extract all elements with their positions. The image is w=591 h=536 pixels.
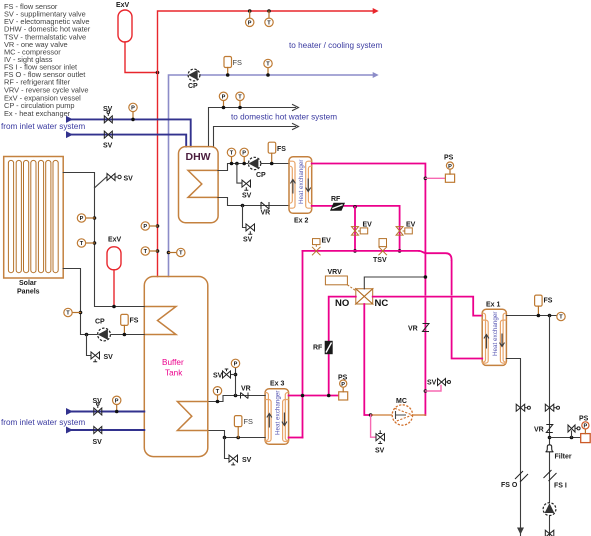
wire: SV drop below DHW line	[243, 206, 246, 228]
svg-text:P: P	[448, 164, 452, 170]
svg-text:Tank: Tank	[165, 369, 183, 378]
pump CP (heating circuit)	[188, 69, 200, 90]
refrigerant filter RF (Ex2 line)	[330, 196, 345, 211]
wire: Ex2 return (magenta bottom, RF line)	[312, 206, 400, 251]
node: SV branch	[234, 373, 238, 377]
valve (FS O branch)	[516, 404, 530, 411]
sensor P on inlet A	[113, 396, 121, 411]
flow sensor FS (Ex3)	[234, 416, 253, 438]
wire: navy inlet B (buffer)	[68, 429, 144, 431]
wire: Ex2 hot out (magenta top)	[312, 164, 426, 416]
svg-text:Buffer: Buffer	[162, 358, 184, 367]
svg-text:SV: SV	[93, 439, 103, 446]
expansion vessel ExV (top)	[116, 2, 132, 42]
sensor P on DHW-CP line	[240, 148, 248, 163]
node	[270, 162, 274, 166]
node: PS1 junction	[424, 177, 428, 181]
wire: red supply to heater/cooling	[158, 11, 376, 277]
flow sensor FS (solar)	[121, 314, 139, 334]
flow sensor FS (Ex1)	[535, 295, 553, 315]
svg-text:Filter: Filter	[555, 454, 572, 461]
valve (bottom edge, cut)	[545, 530, 554, 536]
svg-text:DHW: DHW	[186, 151, 211, 163]
svg-text:P: P	[115, 398, 119, 404]
svg-text:SV: SV	[103, 143, 113, 150]
svg-text:P: P	[234, 362, 238, 368]
wire: buffer to Ex3 top	[208, 396, 265, 402]
arrow: purple to heater	[373, 72, 379, 78]
svg-text:T: T	[266, 62, 270, 68]
coil upper (solar) in buffer	[144, 307, 176, 335]
sensor P (solar line)	[77, 214, 94, 222]
node: FS purple junction	[226, 73, 230, 77]
node: EV1 top junction	[353, 205, 357, 209]
sensor P (Ex3 feed)	[231, 359, 239, 367]
wire: NO/NC left port to RF riser	[329, 297, 356, 396]
valve SV on inlet A	[93, 398, 103, 415]
svg-text:RF: RF	[313, 345, 323, 352]
svg-text:T: T	[66, 311, 70, 317]
pressure switch PS3	[579, 416, 590, 443]
svg-text:T: T	[230, 151, 234, 157]
refrigerant filter RF (riser)	[313, 341, 333, 354]
pressure switch PS1	[425, 155, 454, 183]
sensor T (solar line)	[77, 239, 94, 247]
svg-text:from inlet water system: from inlet water system	[1, 122, 85, 131]
heat exchanger Ex 2	[289, 157, 312, 225]
valve SV (Ex3 feed branch)	[213, 369, 236, 380]
arrow: inlet 1	[66, 116, 73, 123]
arrow: outlet 1	[293, 105, 299, 111]
node	[115, 410, 119, 414]
svg-text:Solar: Solar	[19, 280, 37, 287]
wire: Ex1 top-right water out	[506, 315, 556, 317]
svg-text:T: T	[267, 20, 271, 26]
valve SV on navy line 2	[103, 131, 113, 149]
valve EV1	[352, 222, 373, 236]
tank Buffer	[144, 277, 208, 457]
node	[216, 400, 220, 404]
svg-text:NO: NO	[335, 298, 349, 309]
heat exchanger Ex 1	[482, 302, 506, 366]
sensor P on red vertical	[141, 222, 157, 230]
wire: PS3 stub	[550, 437, 581, 439]
expansion vessel ExV (solar)	[107, 237, 122, 307]
svg-text:MC: MC	[396, 398, 407, 405]
wire: P riser	[235, 368, 237, 396]
svg-text:SV: SV	[242, 193, 252, 200]
svg-text:VR: VR	[534, 427, 544, 434]
valve SV (Ex3 drop)	[229, 455, 252, 465]
node: outlet1 P junction	[222, 106, 226, 110]
svg-text:T: T	[238, 94, 242, 100]
svg-text:P: P	[341, 382, 345, 388]
arrow: inlet 2	[66, 131, 73, 138]
sensor T on purple vertical	[169, 248, 186, 256]
valve EV3	[312, 238, 331, 256]
svg-text:PS: PS	[338, 375, 348, 382]
arrow: outlet 2	[293, 124, 299, 130]
wire: Ex3 magenta bottom out	[289, 437, 303, 439]
sensor P on outlet 1	[219, 92, 227, 107]
svg-text:SV: SV	[427, 380, 437, 387]
svg-text:Panels: Panels	[17, 289, 40, 296]
wire: DHW bottom to Ex2	[218, 198, 289, 206]
node: red P junction	[248, 9, 252, 13]
arrow: red to heater	[373, 8, 379, 14]
node	[93, 216, 97, 220]
sensor T (buffer out)	[213, 387, 221, 402]
node	[236, 436, 240, 440]
pump CP (solar)	[95, 319, 110, 341]
svg-text:Ex 2: Ex 2	[294, 218, 309, 225]
node	[123, 333, 127, 337]
svg-text:SV: SV	[375, 448, 385, 455]
svg-text:PS: PS	[444, 155, 454, 162]
arrow: outlet bottom	[517, 528, 524, 535]
coil lower in buffer	[177, 402, 207, 431]
wire: DHW outlet 2	[214, 127, 296, 147]
svg-text:VR: VR	[408, 326, 418, 333]
wire: navy inlet line 2	[68, 135, 186, 147]
coil inside DHW	[188, 170, 218, 197]
valve SV (DHW bottom drop)	[243, 224, 255, 244]
svg-text:CP: CP	[95, 319, 105, 326]
wire: NO/NC bottom port to MC	[364, 304, 372, 415]
svg-text:to domestic hot water system: to domestic hot water system	[231, 113, 337, 122]
check valve VR (Ex3 feed)	[241, 386, 251, 399]
sensor T on DHW-CP line	[227, 148, 235, 163]
wire: manifold jog to Ex1 branch	[419, 251, 452, 260]
wire: solar hot out to buffer coil	[63, 173, 144, 307]
svg-text:EV: EV	[406, 222, 416, 229]
node	[548, 436, 552, 440]
svg-text:ExV: ExV	[116, 2, 130, 9]
svg-text:SV: SV	[242, 457, 252, 464]
sensor T on red line	[265, 11, 273, 26]
node: outlet1 T junction	[238, 106, 242, 110]
node: navy P junction	[131, 118, 135, 122]
node: SV branch solar return	[85, 333, 89, 337]
node: red line T sensor junction	[156, 249, 160, 253]
svg-text:FS: FS	[130, 318, 139, 325]
node	[79, 311, 83, 315]
svg-text:Ex 3: Ex 3	[270, 381, 285, 388]
valve VRV reverse-cycle (NO/NC)	[325, 269, 388, 309]
svg-text:RF: RF	[331, 196, 341, 203]
wire: DHW to CP line (top)	[218, 164, 289, 171]
node: sense line junction	[424, 275, 428, 279]
node: EV2 bottom junction	[398, 249, 402, 253]
node: SV branch on DHW-CP line	[235, 162, 239, 166]
node: SV drop junction	[241, 204, 245, 208]
svg-text:T: T	[144, 249, 148, 255]
sensor T on purple line	[264, 59, 272, 75]
svg-text:T: T	[559, 315, 563, 321]
svg-text:from inlet water system: from inlet water system	[1, 418, 85, 427]
svg-text:SV: SV	[124, 176, 134, 183]
valve SV (solar safety)	[95, 174, 134, 188]
valve SV (DHW top branch)	[242, 180, 252, 199]
arrow: inlet B	[66, 427, 73, 434]
valve TSV (thermostatic)	[373, 239, 387, 264]
svg-text:Heat exchanger: Heat exchanger	[275, 391, 282, 435]
wire: solar cold return via CP	[63, 269, 144, 335]
svg-text:FS: FS	[544, 298, 553, 305]
wire: navy inlet A (buffer)	[68, 411, 144, 413]
compressor MC	[372, 398, 425, 425]
svg-text:to heater / cooling system: to heater / cooling system	[289, 41, 382, 50]
svg-text:EV: EV	[363, 222, 373, 229]
node	[223, 436, 227, 440]
node	[242, 162, 246, 166]
node: P/SV riser junction	[234, 394, 238, 398]
check valve VR (hot gas riser)	[408, 324, 429, 333]
svg-text:Ex - heat exchanger: Ex - heat exchanger	[4, 109, 71, 118]
wire: SV drop (Ex3 bottom)	[225, 438, 229, 459]
svg-text:Ex 1: Ex 1	[486, 302, 501, 309]
wire: EV1 vertical	[354, 207, 356, 251]
svg-text:Heat exchanger: Heat exchanger	[492, 312, 499, 356]
node: EV1 bottom junction	[353, 249, 357, 253]
node: red line P sensor junction	[156, 224, 160, 228]
svg-text:VR: VR	[261, 210, 271, 217]
node: purple T sensor junction (vertical)	[167, 251, 171, 255]
wire: buffer to Ex3 bottom	[208, 431, 265, 438]
pressure switch PS2	[338, 375, 348, 401]
svg-text:CP: CP	[256, 172, 266, 179]
tank DHW	[179, 147, 219, 223]
node	[301, 394, 305, 398]
node: MC suction junction	[369, 413, 373, 417]
solar panel array	[4, 157, 64, 296]
node	[548, 314, 552, 318]
wire: purple return from heater/cooling	[169, 75, 376, 277]
svg-text:T: T	[216, 389, 220, 395]
node: ExV1 junction	[156, 71, 160, 75]
wire: NO/NC right port to Ex1	[373, 297, 483, 316]
svg-text:SV: SV	[243, 237, 253, 244]
wire: DHW outlet 1	[209, 108, 296, 147]
flow sensor FS on purple line	[224, 57, 242, 76]
wire: Ex1 bottom-right water in	[506, 359, 520, 536]
wire: magenta riser x=302.5	[302, 251, 304, 438]
check valve VR (DHW-Ex2)	[261, 202, 271, 217]
svg-text:P: P	[248, 20, 252, 26]
node	[230, 162, 234, 166]
svg-text:FS O: FS O	[501, 482, 518, 489]
wire: Ex1 right riser down	[549, 316, 551, 536]
valve SV on navy line 1	[103, 106, 113, 123]
svg-text:PS: PS	[579, 416, 589, 423]
svg-text:CP: CP	[188, 83, 198, 90]
heat exchanger Ex 3	[265, 381, 289, 445]
wire: SV branch DHW top	[237, 164, 242, 184]
wire: SV drop solar return	[87, 335, 91, 356]
valve SV (MC drop)	[375, 430, 385, 454]
svg-text:TSV: TSV	[373, 257, 387, 264]
svg-text:VRV: VRV	[328, 269, 343, 276]
arrow: inlet A	[66, 408, 73, 415]
node	[570, 436, 574, 440]
valve SV (riser stub)	[425, 379, 450, 392]
svg-text:P: P	[80, 216, 84, 222]
node	[93, 241, 97, 245]
legend text block	[4, 2, 91, 118]
flow sensor FS (DHW circuit)	[268, 142, 286, 163]
wire: EV/TSV manifold	[303, 250, 420, 252]
flow sensor outlet FS O symbol	[501, 471, 528, 489]
svg-text:T: T	[80, 241, 84, 247]
wire: Ex3 magenta top out	[289, 395, 339, 397]
svg-text:SV: SV	[104, 354, 114, 361]
wire: ExV1 to red main	[125, 42, 158, 73]
svg-text:P: P	[222, 94, 226, 100]
sensor P on navy line 1	[129, 103, 137, 119]
svg-text:VR: VR	[241, 386, 251, 393]
filter	[546, 445, 572, 461]
svg-text:P: P	[242, 151, 246, 157]
svg-text:SV: SV	[213, 373, 223, 380]
sensor T (solar return)	[64, 308, 81, 316]
svg-text:FS: FS	[244, 417, 254, 426]
node: T purple junction	[266, 73, 270, 77]
svg-text:SV: SV	[93, 398, 103, 405]
pump CP (DHW circuit)	[248, 157, 266, 179]
wire: NO/NC top port to TSV sense line	[364, 277, 425, 289]
svg-text:Heat exchanger: Heat exchanger	[298, 160, 305, 204]
svg-text:EV: EV	[322, 238, 332, 245]
pump CP (bottom right)	[543, 503, 556, 516]
valve SV (solar return drop)	[91, 352, 113, 362]
valve SV on inlet B	[93, 427, 103, 447]
svg-text:FS: FS	[233, 58, 243, 67]
valve SV (PS3 stub)	[568, 425, 580, 438]
sensor T on red vertical	[141, 247, 157, 255]
svg-text:SV: SV	[103, 106, 113, 113]
node: red T junction	[267, 9, 271, 13]
wire: SV drop below MC line	[371, 415, 376, 437]
svg-text:P: P	[143, 224, 147, 230]
node	[537, 314, 541, 318]
wire: Ex1 bottom-left feed	[452, 261, 483, 359]
valve EV2	[396, 222, 416, 236]
check valve VR (FS I branch)	[534, 425, 553, 434]
svg-text:T: T	[179, 251, 183, 257]
valve (FS I branch)	[545, 404, 559, 411]
node: ExV2 junction	[112, 305, 116, 309]
svg-text:ExV: ExV	[108, 237, 122, 244]
svg-text:P: P	[584, 424, 588, 430]
sensor P on red line	[246, 11, 254, 26]
svg-text:NC: NC	[375, 298, 389, 309]
wire: navy inlet line 1	[68, 119, 191, 146]
svg-text:FS I: FS I	[554, 483, 567, 490]
svg-text:P: P	[131, 106, 135, 112]
flow sensor inlet FS I symbol	[544, 470, 567, 490]
sensor T at Ex1 out	[557, 312, 565, 320]
node	[327, 394, 331, 398]
sensor T on outlet 1	[236, 92, 244, 107]
svg-text:FS: FS	[277, 146, 286, 153]
node: SV stub junction	[424, 389, 428, 393]
